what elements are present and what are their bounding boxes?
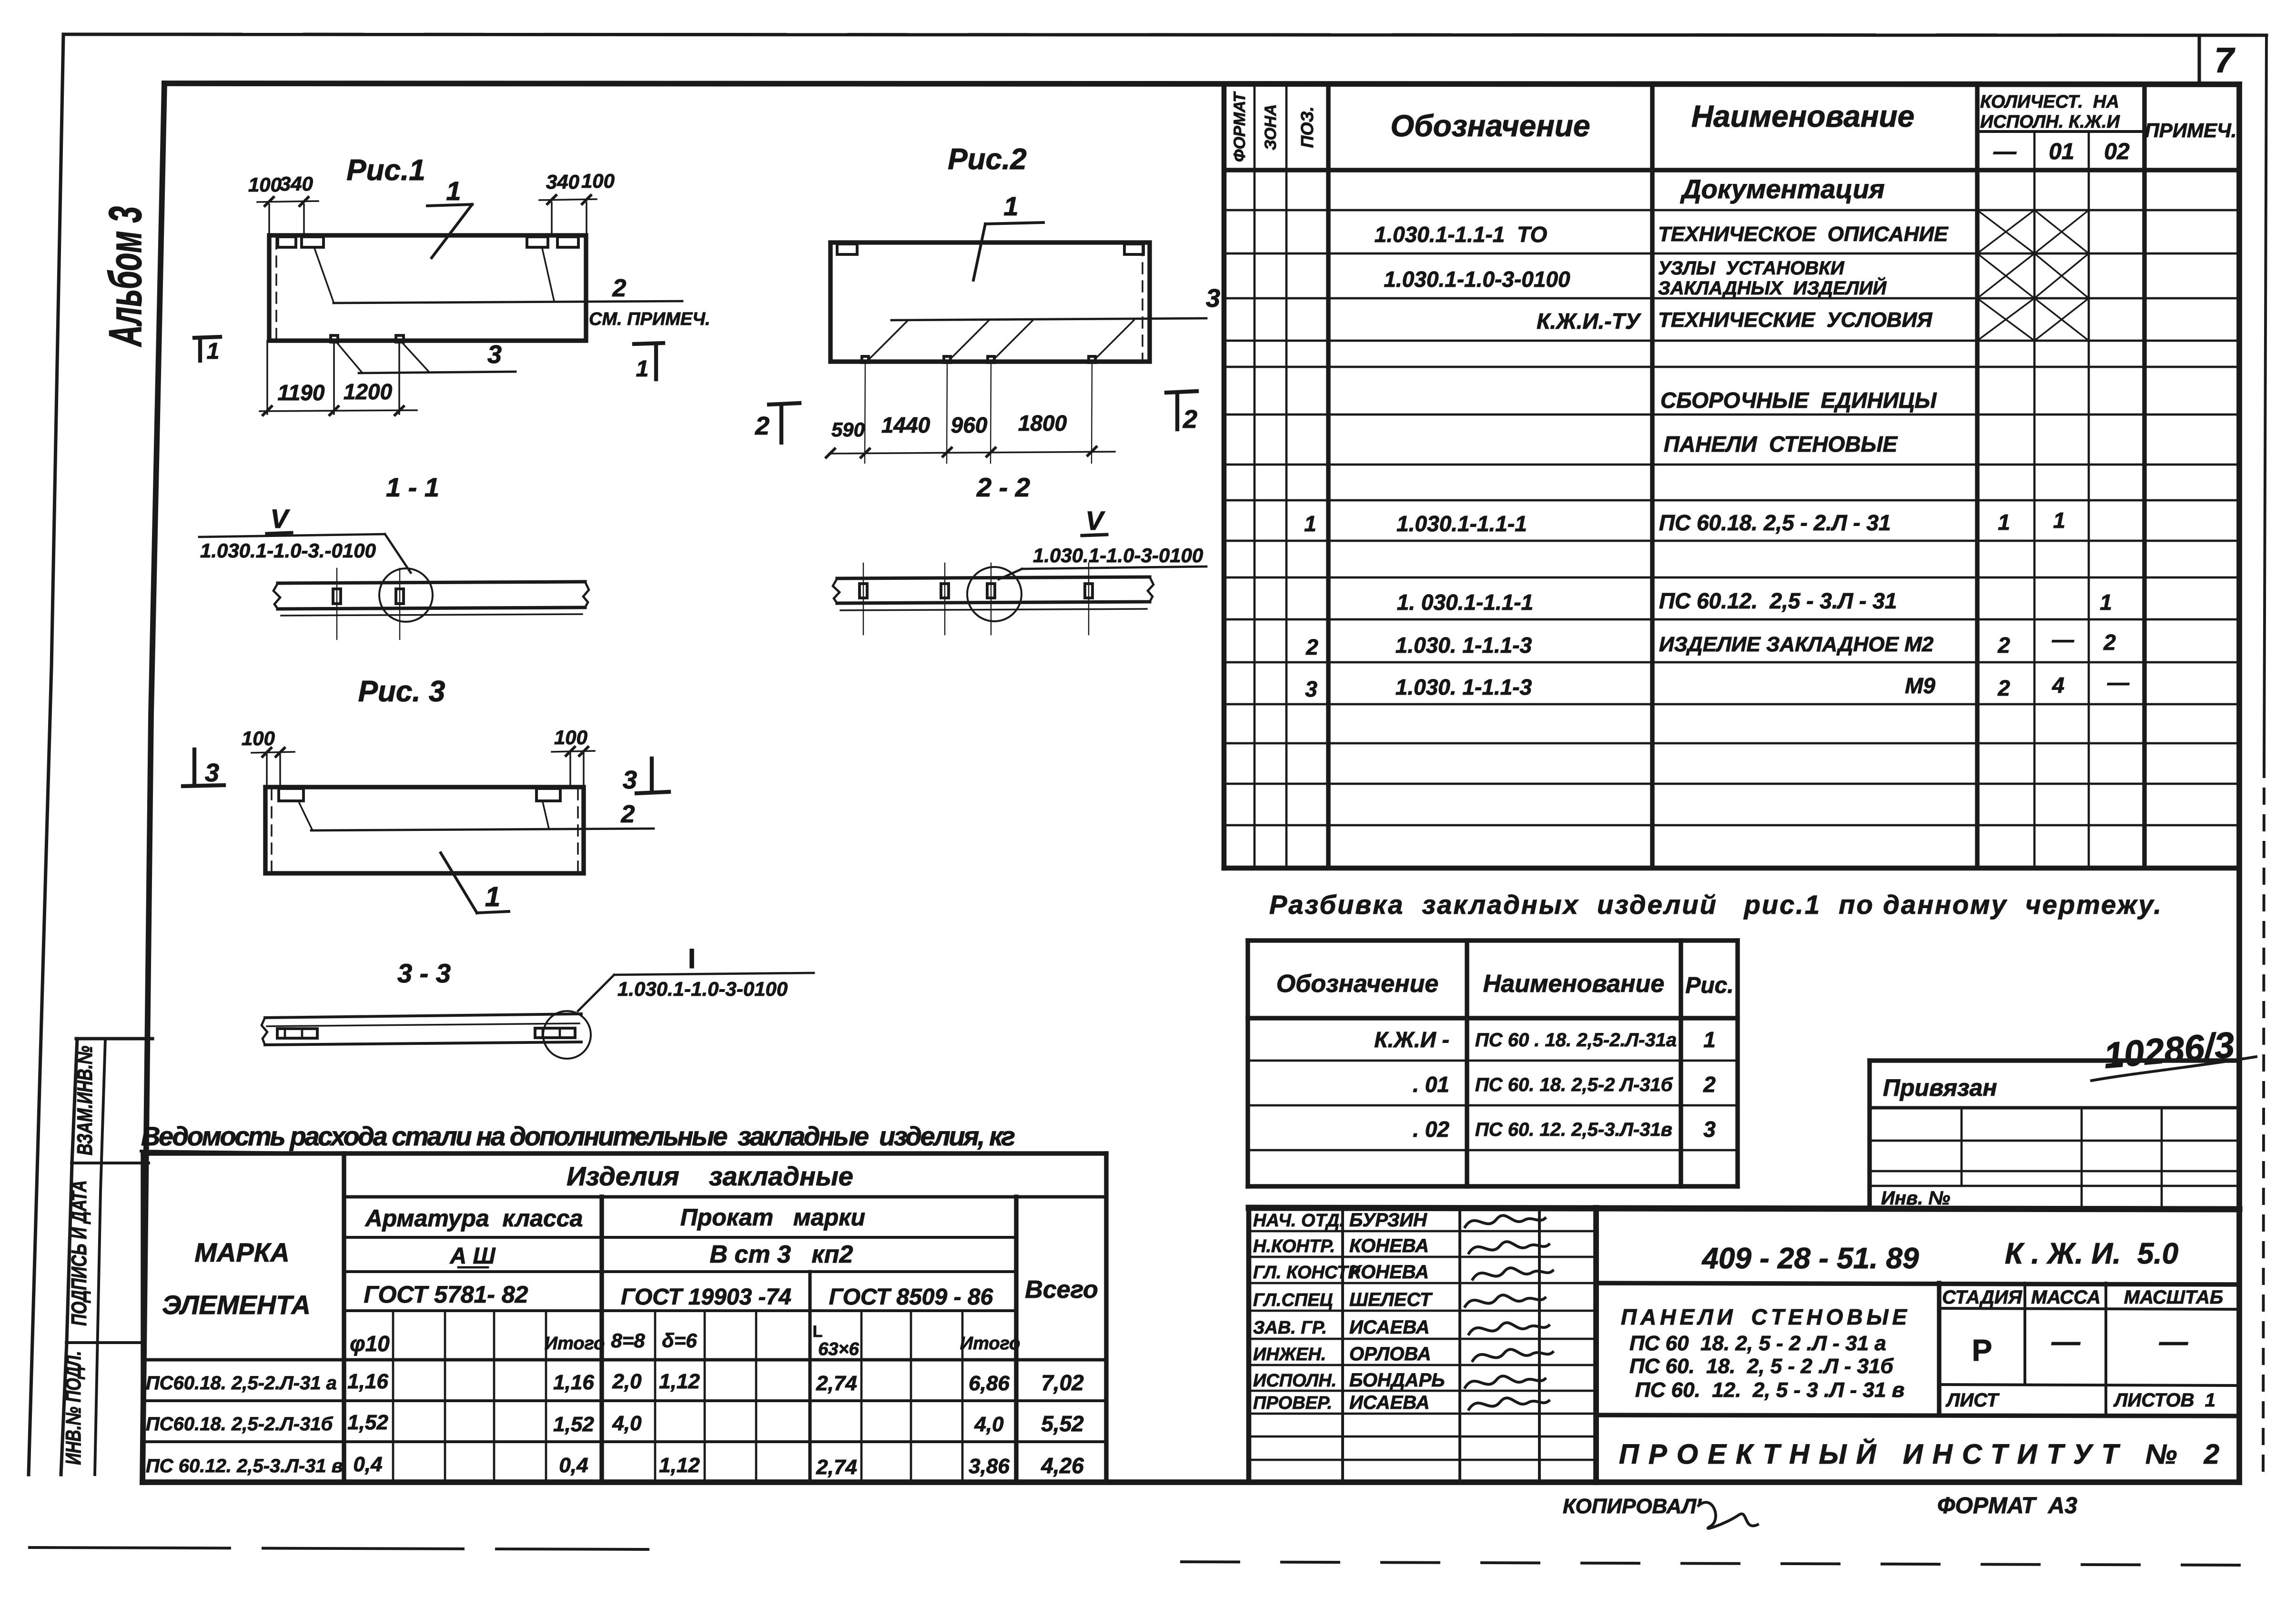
svg-text:2: 2 [612,274,627,302]
section 2-2 embed items [860,584,867,598]
svg-text:4,26: 4,26 [1041,1453,1084,1478]
fig1 embed plate b [302,237,324,247]
svg-text:0,4: 0,4 [353,1453,382,1476]
signature table verticals [1246,1208,1252,1482]
fig1 embed plate a [278,237,296,247]
svg-text:1: 1 [1304,511,1316,536]
svg-text:Итого: Итого [960,1334,1020,1354]
svg-text:409 - 28 - 51. 89: 409 - 28 - 51. 89 [1701,1242,1919,1275]
section 2-2 center lines [863,563,864,635]
svg-text:1.030.1-1.0-3-0100: 1.030.1-1.0-3-0100 [1033,544,1203,566]
svg-text:2: 2 [1305,635,1318,659]
fig2 embed plate b [1124,244,1143,254]
svg-text:СТАДИЯ: СТАДИЯ [1942,1287,2022,1308]
section 1-1 detail circle [379,568,433,622]
svg-text:ПОЗ.: ПОЗ. [1297,106,1317,148]
svg-text:ФОРМАТ: ФОРМАТ [1231,91,1249,162]
section 1-1 ref line [199,534,385,537]
svg-text:2 - 2: 2 - 2 [976,472,1030,502]
svg-text:2: 2 [1183,405,1197,434]
svg-text:1: 1 [1003,191,1018,221]
svg-text:340: 340 [546,171,579,193]
svg-text:Рис. 3: Рис. 3 [358,675,445,708]
svg-text:МАСШТАБ: МАСШТАБ [2124,1287,2223,1308]
svg-text:1,12: 1,12 [659,1454,700,1477]
svg-text:Рис.1: Рис.1 [346,154,425,187]
svg-text:НАЧ. ОТД.: НАЧ. ОТД. [1253,1211,1345,1231]
svg-text:Р: Р [1972,1333,1993,1367]
section 3-3 plate right [535,1028,575,1038]
svg-text:ФОРМАТ А3: ФОРМАТ А3 [1937,1493,2077,1518]
svg-text:1200: 1200 [344,379,393,404]
svg-text:ПОДПИСЬ И ДАТА: ПОДПИСЬ И ДАТА [68,1180,91,1326]
fig1 section mark 1 right [634,343,663,344]
fig3 section mark 3 left [192,749,196,785]
svg-text:ПС 60.18. 2,5 - 2.Л - 31: ПС 60.18. 2,5 - 2.Л - 31 [1659,510,1891,535]
fig3 embed plate a [279,789,303,801]
fig2 bottom squares [862,356,869,363]
svg-text:КОЛИЧЕСТ. НА: КОЛИЧЕСТ. НА [1980,92,2119,112]
svg-text:1 - 1: 1 - 1 [386,472,439,502]
svg-text:100: 100 [248,173,282,196]
svg-text:Рис.2: Рис.2 [948,143,1026,176]
svg-text:ПС 60 18. 2, 5 - 2 .Л - 31 а: ПС 60 18. 2, 5 - 2 .Л - 31 а [1629,1332,1886,1355]
inner frame [164,83,2239,84]
svg-text:2: 2 [755,412,769,440]
fig1 hidden edge dashed [275,238,277,339]
svg-text:4: 4 [2052,673,2064,698]
svg-text:100: 100 [554,726,587,748]
svg-text:ГЛ. КОНСТР: ГЛ. КОНСТР [1253,1263,1360,1283]
svg-text:3: 3 [205,759,219,787]
svg-text:Рис.: Рис. [1685,973,1733,998]
svg-text:2: 2 [1703,1072,1716,1097]
svg-text:1: 1 [636,356,649,382]
svg-text:4,0: 4,0 [612,1412,642,1435]
svg-text:ЛИСТОВ 1: ЛИСТОВ 1 [2113,1390,2215,1411]
fig2 bottom dim [829,452,1115,454]
svg-text:0,4: 0,4 [559,1454,588,1477]
section 2-2 bar [837,577,1150,578]
fig2 embed plate a [837,244,857,254]
svg-text:I: I [688,943,696,974]
svg-text:1.030. 1-1.1-3: 1.030. 1-1.1-3 [1396,675,1532,699]
svg-text:1: 1 [207,339,220,364]
svg-text:Итого: Итого [545,1334,605,1354]
svg-text:Наименование: Наименование [1483,970,1665,998]
svg-text:. 01: . 01 [1413,1072,1449,1097]
svg-text:ПС 60. 12. 2,5-3.Л-31в: ПС 60. 12. 2,5-3.Л-31в [1475,1119,1672,1140]
svg-text:7,02: 7,02 [1041,1370,1084,1395]
fig2 hidden edge dashed [1142,245,1143,360]
svg-text:1,52: 1,52 [347,1411,388,1434]
svg-text:1,16: 1,16 [347,1370,388,1393]
svg-text:. 02: . 02 [1413,1117,1449,1142]
sheet number box [2197,37,2201,83]
svg-text:ПРОЕКТНЫЙ ИНСТИТУТ № 2: ПРОЕКТНЫЙ ИНСТИТУТ № 2 [1619,1438,2219,1470]
section 1-1 center lines [336,568,337,639]
svg-text:—: — [2107,670,2130,695]
svg-text:2,74: 2,74 [816,1372,857,1395]
fig2 section mark 2 left [769,403,799,405]
svg-text:8=8: 8=8 [611,1329,645,1352]
fig1 bottom squares [331,335,338,342]
fig1 leader from plate b [314,248,334,302]
svg-text:3: 3 [1206,284,1220,313]
title block top edge [1249,1208,2239,1209]
svg-text:ЗАКЛАДНЫХ ИЗДЕЛИЙ: ЗАКЛАДНЫХ ИЗДЕЛИЙ [1658,276,1887,299]
fig2 hatch diagonals [868,320,908,361]
vedomost verticals [141,1153,145,1482]
svg-text:—: — [2052,627,2074,652]
svg-text:Инв. №: Инв. № [1881,1188,1950,1209]
svg-text:5,52: 5,52 [1041,1411,1084,1436]
svg-text:1,52: 1,52 [553,1413,594,1436]
svg-text:2,74: 2,74 [816,1456,857,1479]
fig2 section mark 2 right [1166,391,1197,393]
svg-text:СМ. ПРИМЕЧ.: СМ. ПРИМЕЧ. [589,309,710,329]
outer border bottom dashed [30,1547,648,1549]
outer border left [29,34,63,1475]
svg-text:КОПИРОВАЛ': КОПИРОВАЛ' [1563,1495,1702,1518]
svg-text:6,86: 6,86 [969,1372,1010,1395]
spec cross marks [1977,210,2034,253]
section 3-3 plate left [277,1029,317,1038]
svg-text:3: 3 [1305,677,1317,701]
svg-text:100: 100 [581,170,615,192]
svg-text:ПС 60.12. 2,5-3.Л-31 в: ПС 60.12. 2,5-3.Л-31 в [146,1456,343,1477]
svg-text:1.030. 1-1.1-3: 1.030. 1-1.1-3 [1396,633,1532,657]
svg-text:V: V [270,504,290,534]
svg-text:ВЗАМ.ИНВ.№: ВЗАМ.ИНВ.№ [73,1046,97,1155]
fig3 embed plate b [536,789,560,801]
fig2 center lines [865,362,865,463]
svg-text:3: 3 [623,766,637,794]
title block main rows [1596,1283,2239,1284]
svg-text:ИСАЕВА: ИСАЕВА [1349,1317,1429,1338]
svg-text:1. 030.1-1.1-1: 1. 030.1-1.1-1 [1397,590,1533,615]
svg-text:Ведомость расхода стали на доп: Ведомость расхода стали на дополнительны… [141,1121,1015,1151]
svg-text:L: L [813,1323,823,1341]
svg-text:δ=6: δ=6 [662,1329,697,1352]
svg-text:100: 100 [242,727,275,749]
svg-text:—: — [2159,1325,2188,1357]
svg-text:01: 01 [2049,139,2074,164]
svg-text:1190: 1190 [278,380,325,405]
outer border top [63,34,2266,35]
svg-text:—: — [2051,1325,2081,1357]
svg-text:СБОРОЧНЫЕ ЕДИНИЦЫ: СБОРОЧНЫЕ ЕДИНИЦЫ [1660,388,1937,413]
svg-text:ЗОНА: ЗОНА [1262,104,1280,151]
section 3-3 bar [265,1014,581,1018]
svg-text:БОНДАРЬ: БОНДАРЬ [1349,1370,1445,1391]
fig2 inner line to label3 [891,318,1206,320]
svg-text:ПС 60 . 18. 2,5-2.Л-31а: ПС 60 . 18. 2,5-2.Л-31а [1475,1030,1677,1051]
fig3 label 1 leader [441,853,477,913]
svg-text:ШЕЛЕСТ: ШЕЛЕСТ [1349,1289,1433,1310]
svg-text:Документация: Документация [1680,174,1885,204]
svg-text:Арматура класса: Арматура класса [364,1205,583,1232]
svg-text:УЗЛЫ УСТАНОВКИ: УЗЛЫ УСТАНОВКИ [1658,258,1845,279]
svg-text:1.030.1-1.1-1 ТО: 1.030.1-1.1-1 ТО [1375,222,1548,247]
svg-text:ПС 60.12. 2,5 - 3.Л - 31: ПС 60.12. 2,5 - 3.Л - 31 [1659,588,1897,613]
fig1 section mark 1 left [194,337,220,338]
svg-text:ПС 60. 18. 2,5-2 Л-31б: ПС 60. 18. 2,5-2 Л-31б [1475,1074,1673,1095]
vedomost horizontals [143,1151,1106,1155]
svg-text:960: 960 [951,413,988,437]
svg-text:1.030.1-1.1-1: 1.030.1-1.1-1 [1396,511,1527,536]
svg-text:7: 7 [2214,40,2235,80]
privyazan box [1870,1058,2239,1062]
svg-text:ИСАЕВА: ИСАЕВА [1349,1392,1429,1413]
svg-text:ПС60.18. 2,5-2.Л-31б: ПС60.18. 2,5-2.Л-31б [146,1414,334,1435]
svg-text:Обозначение: Обозначение [1390,109,1590,143]
svg-text:—: — [1993,139,2017,164]
svg-text:2: 2 [621,800,635,828]
svg-text:КОНЕВА: КОНЕВА [1349,1235,1429,1256]
fig1 panel outline [269,235,586,341]
section 1-1 embed item b [396,589,404,604]
svg-text:МАРКА: МАРКА [194,1237,289,1267]
fig1 dim top-right [539,199,597,200]
svg-text:Н.КОНТР.: Н.КОНТР. [1253,1236,1335,1256]
svg-text:ГОСТ 5781- 82: ГОСТ 5781- 82 [364,1281,528,1308]
svg-text:ПС60.18. 2,5-2.Л-31 а: ПС60.18. 2,5-2.Л-31 а [146,1373,337,1394]
svg-text:ЗАВ. ГР.: ЗАВ. ГР. [1253,1318,1327,1338]
svg-text:3: 3 [1703,1117,1716,1142]
svg-text:К.Ж.И -: К.Ж.И - [1374,1027,1449,1052]
fig1 bottom dim [260,410,417,411]
svg-text:ПРИМЕЧ.: ПРИМЕЧ. [2145,119,2237,142]
svg-text:ИЗДЕЛИЕ ЗАКЛАДНОЕ М2: ИЗДЕЛИЕ ЗАКЛАДНОЕ М2 [1659,633,1934,656]
svg-text:К.Ж.И.-ТУ: К.Ж.И.-ТУ [1537,309,1642,334]
svg-text:КОНЕВА: КОНЕВА [1349,1262,1429,1283]
svg-text:БУРЗИН: БУРЗИН [1349,1210,1427,1231]
svg-text:ОРЛОВА: ОРЛОВА [1349,1344,1431,1365]
svg-text:ГОСТ 19903 -74: ГОСТ 19903 -74 [621,1284,791,1310]
svg-text:ЛИСТ: ЛИСТ [1945,1390,2000,1411]
svg-text:1.030.1-1.0-3.-0100: 1.030.1-1.0-3.-0100 [200,539,376,562]
svg-text:340: 340 [280,172,313,195]
svg-text:1,12: 1,12 [659,1370,700,1393]
svg-text:Прокат марки: Прокат марки [680,1204,865,1231]
fig1 leader from plate c [542,248,554,301]
svg-text:1: 1 [446,176,461,206]
title block main verticals [1937,1283,1941,1415]
fig1 embed plate c [527,237,548,247]
svg-text:ИНЖЕН.: ИНЖЕН. [1253,1345,1326,1365]
svg-text:1800: 1800 [1018,411,1067,435]
svg-text:ЭЛЕМЕНТА: ЭЛЕМЕНТА [162,1290,311,1320]
svg-text:3 - 3: 3 - 3 [397,958,451,988]
svg-text:Наименование: Наименование [1691,99,1914,133]
svg-text:ТЕХНИЧЕСКОЕ ОПИСАНИЕ: ТЕХНИЧЕСКОЕ ОПИСАНИЕ [1658,223,1949,246]
fig3 hidden edges dashed [271,789,273,872]
svg-text:ГЛ.СПЕЦ: ГЛ.СПЕЦ [1253,1290,1333,1310]
section 3-3 detail circle [543,1011,591,1059]
fig1 label 3 leader [359,372,516,373]
svg-text:Изделия закладные: Изделия закладные [566,1161,853,1191]
svg-text:2: 2 [1997,633,2010,657]
svg-text:М9: М9 [1905,673,1935,698]
svg-text:1: 1 [2100,590,2112,615]
fig2 panel outline [830,243,1150,362]
svg-text:ПАНЕЛИ СТЕНОВЫЕ: ПАНЕЛИ СТЕНОВЫЕ [1664,432,1898,456]
svg-text:Обозначение: Обозначение [1276,970,1439,998]
svg-text:МАССА: МАССА [2031,1287,2101,1308]
svg-text:V: V [1085,506,1105,536]
fig3 inner line to label2 [311,829,654,830]
fig1 inner line to label2 [334,301,682,303]
left stamp strip [61,1039,77,1475]
svg-text:ПС 60. 12. 2, 5 - 3 .Л - 31: ПС 60. 12. 2, 5 - 3 .Л - 31 в [1635,1378,1904,1402]
svg-text:Альбом 3: Альбом 3 [100,206,151,347]
fig3 leaders [299,802,312,829]
svg-text:ИСПОЛН. К.Ж.И: ИСПОЛН. К.Ж.И [1980,112,2120,132]
svg-text:3,86: 3,86 [969,1455,1010,1478]
outer border right [2264,35,2266,762]
section 2-2 ref line [1022,566,1206,569]
svg-text:ТЕХНИЧЕСКИЕ УСЛОВИЯ: ТЕХНИЧЕСКИЕ УСЛОВИЯ [1658,308,1932,332]
razbivka table frame [1245,941,1250,1186]
svg-text:Всего: Всего [1025,1276,1098,1304]
svg-text:1.030.1-1.0-3-0100: 1.030.1-1.0-3-0100 [1384,267,1570,292]
fig1 label 1 leader [427,204,472,206]
fig3 panel outline [265,787,584,873]
svg-text:2,0: 2,0 [612,1370,642,1393]
svg-text:1440: 1440 [881,413,931,437]
svg-text:П А Н Е Л И С Т Е Н О В Ы Е: П А Н Е Л И С Т Е Н О В Ы Е [1621,1305,1907,1329]
svg-text:1.030.1-1.0-3-0100: 1.030.1-1.0-3-0100 [617,978,788,1000]
fig1 dim top-left [257,201,318,202]
signature squiggles [1465,1215,1545,1227]
svg-text:3: 3 [487,340,502,369]
svg-text:Привязан: Привязан [1883,1074,1997,1101]
svg-text:590: 590 [831,418,865,441]
svg-text:В ст 3 кп2: В ст 3 кп2 [710,1241,853,1268]
svg-text:ИСПОЛН.: ИСПОЛН. [1253,1371,1336,1391]
svg-text:К . Ж. И. 5.0: К . Ж. И. 5.0 [2005,1237,2178,1270]
svg-text:ПРОВЕР.: ПРОВЕР. [1253,1393,1332,1413]
svg-text:А Ш: А Ш [450,1244,496,1269]
fig3 section mark 3 right [650,759,654,792]
svg-text:1: 1 [2053,508,2065,533]
svg-text:2: 2 [1997,676,2010,700]
svg-text:ПС 60. 18. 2, 5 - 2 .Л - 31б: ПС 60. 18. 2, 5 - 2 .Л - 31б [1629,1355,1894,1378]
svg-text:1: 1 [1703,1027,1716,1052]
svg-text:2: 2 [2103,630,2116,655]
svg-text:ГОСТ 8509 - 86: ГОСТ 8509 - 86 [829,1284,993,1310]
svg-text:1: 1 [485,881,500,912]
svg-text:4,0: 4,0 [974,1413,1004,1436]
svg-text:1,16: 1,16 [553,1371,594,1394]
svg-text:1: 1 [1998,510,2010,535]
svg-text:φ10: φ10 [350,1331,390,1356]
svg-text:ИНВ.№ ПОДЛ.: ИНВ.№ ПОДЛ. [62,1351,85,1465]
svg-text:63×6: 63×6 [818,1339,859,1359]
section 1-1 embed item a [333,589,341,604]
svg-text:02: 02 [2104,139,2130,164]
section 1-1 bar [278,582,585,583]
signature table rows [1249,1230,1596,1233]
section 2-2 detail circle [967,567,1022,621]
section 3-3 ref line [578,975,614,1011]
spec table horizontals [1977,130,2144,133]
fig1 embed plate d [557,237,578,247]
spec table verticals [1222,84,1227,868]
